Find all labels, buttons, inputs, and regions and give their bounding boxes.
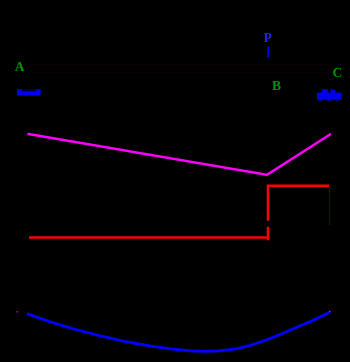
shear force diagram (red step) [267, 238, 270, 241]
shear axis crossing gap over red vertical [266, 221, 270, 227]
tiny magenta tip at right end of deflection curve [329, 311, 331, 313]
load P arrow shaft [267, 47, 269, 58]
svg-text:P: P [264, 30, 272, 45]
deflection curve (blue) [28, 313, 329, 352]
roller support C (blue hatched bar with rollers) [317, 89, 342, 101]
svg-text:C: C [333, 65, 343, 80]
faint closing line at C on shear diagram [329, 187, 331, 225]
pin support A (blue hatched ground bar) [17, 89, 41, 95]
svg-text:A: A [15, 59, 25, 74]
tiny magenta tick left of deflection curve [17, 311, 19, 313]
bending moment diagram (magenta V polyline) [29, 134, 331, 175]
beam AB-C (black, invisible on black; faint dark red edges) [29, 65, 330, 74]
svg-text:B: B [272, 78, 281, 93]
